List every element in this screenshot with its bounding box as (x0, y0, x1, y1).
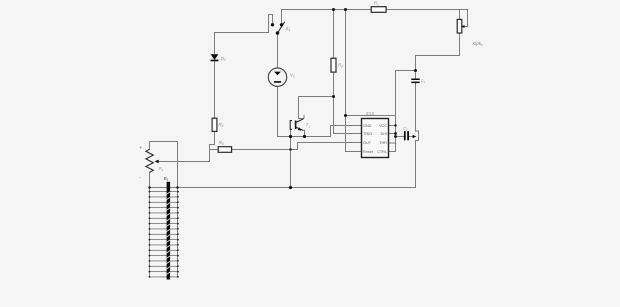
node gate bottom (289, 186, 292, 189)
wire R2 bottom to bus (416, 33, 460, 56)
node gate bus (289, 135, 292, 138)
wire diode to R4 (214, 61, 216, 118)
node DIS column (394, 132, 397, 135)
battery B1 (149, 176, 179, 280)
svg-text:GND: GND (363, 124, 372, 128)
svg-text:THR: THR (379, 141, 387, 145)
op-amp U1 555 timer (362, 111, 389, 157)
svg-text:555: 555 (366, 111, 375, 116)
node rail-B (344, 8, 347, 11)
wire R4 to node F jog (210, 131, 215, 149)
svg-text:DIS: DIS (381, 132, 388, 136)
wire transistor drain branch (299, 96, 334, 98)
connector J1 arrow (413, 135, 417, 138)
wire R5 to OUT (232, 143, 362, 150)
wire B branch to right column (346, 115, 396, 117)
node rail-A (332, 8, 335, 11)
node C2 column (394, 135, 397, 138)
wire node F to R5 (210, 149, 219, 151)
wire source to ground bus (278, 86, 362, 136)
wire A R3 to TRIG (334, 72, 362, 133)
node bus left rail (148, 186, 150, 188)
capacitor C1 (411, 79, 425, 85)
node drain tee (332, 95, 335, 98)
wire pot bottom left rail (149, 172, 151, 276)
resistor R3 (331, 58, 343, 72)
node gate out wire (289, 148, 291, 150)
svg-text:TRIG: TRIG (363, 132, 372, 136)
wire bottom ground bus (150, 187, 416, 189)
wire R2 wiper loop (460, 10, 468, 27)
resistor R2 rheostat (457, 19, 483, 46)
wire top rail (282, 9, 460, 11)
svg-text:+: + (139, 146, 142, 152)
wire pot top over to right rail (150, 142, 178, 277)
wire C2 right lead to connector (409, 136, 413, 138)
wire switch right contact to rail (281, 10, 283, 25)
wire THR stub (389, 142, 396, 144)
node VCC column (394, 124, 396, 126)
wire VCC stub (389, 125, 396, 127)
wire emitter to bus (304, 130, 306, 136)
resistor R5 (218, 140, 231, 152)
wire A rail to R3 (333, 10, 335, 59)
wire right column (389, 71, 396, 152)
svg-text:CTRL: CTRL (377, 150, 387, 154)
wire switch to diode (215, 33, 269, 54)
wire C2 left lead (396, 136, 404, 138)
node bus right rail (176, 186, 178, 188)
resistor R1 (371, 1, 386, 13)
svg-text:OUT: OUT (363, 141, 372, 145)
resistor R4 (212, 118, 224, 131)
wire right bus with connector bump (416, 56, 419, 188)
svg-text:Reset: Reset (363, 150, 374, 154)
wire B rail to Reset (346, 10, 362, 152)
wire pot wiper run (158, 145, 210, 162)
wire switch left contact bend (269, 15, 273, 33)
transistor T1 (290, 115, 310, 131)
wire R2 top lead (459, 10, 461, 20)
node B branch tee (344, 114, 347, 117)
wire column to C1 node (396, 70, 416, 72)
potentiometer P1 (139, 146, 164, 181)
wire gate vertical (290, 129, 292, 187)
wire switch pole down to source (277, 33, 279, 68)
node C1 top (414, 69, 417, 72)
source V1 (268, 68, 295, 86)
wire DIS stub (389, 133, 396, 135)
svg-text:VCC: VCC (379, 124, 387, 128)
node junction dots (148, 8, 417, 189)
node emitter bus (303, 135, 306, 138)
wire drain vertical (298, 97, 300, 119)
capacitor C2 (403, 127, 409, 141)
switch S1 (271, 22, 291, 35)
diode D1 (211, 54, 226, 62)
